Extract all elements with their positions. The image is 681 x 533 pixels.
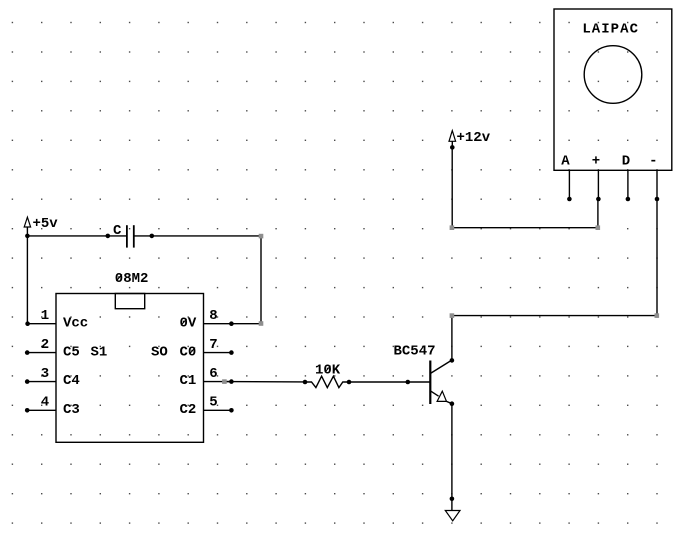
IC U1 pin 3 (C4): [25, 366, 56, 384]
module U2 pin label D: [622, 154, 630, 170]
svg-text:BC547: BC547: [394, 344, 436, 360]
svg-text:2: 2: [41, 337, 49, 353]
transistor Q1 base bar: [429, 361, 431, 405]
capacitor C value label: [113, 223, 122, 239]
svg-text:6: 6: [209, 366, 217, 382]
module U2 LAIPAC box: [554, 9, 672, 170]
IC U1 pin 8 (0V): [204, 308, 234, 326]
svg-text:7: 7: [209, 337, 217, 353]
svg-text:C5: C5: [63, 344, 80, 360]
svg-text:1: 1: [41, 308, 49, 324]
IC U1 pin 7 (C0): [204, 337, 234, 355]
IC U1 label C1: [180, 373, 197, 389]
power symbol +5v: [24, 217, 30, 238]
power label +5v: [33, 216, 59, 232]
svg-text:SO: SO: [151, 344, 168, 360]
IC U1 label C0: [180, 344, 197, 360]
module U2 pin label -: [649, 153, 657, 169]
svg-text:C3: C3: [63, 402, 80, 418]
module U2 circle (antenna): [584, 46, 642, 104]
svg-text:A: A: [561, 154, 570, 170]
resistor R1 value label 10K: [315, 363, 341, 379]
svg-text:5: 5: [209, 395, 217, 411]
wire IC pin 6 to resistor R1: [222, 379, 307, 384]
svg-text:+: +: [592, 154, 600, 170]
IC U1 label 08M2: [115, 271, 149, 287]
wire resistor R1 to Q1 base: [347, 380, 431, 385]
module U2 pin D stub: [626, 170, 631, 201]
power symbol +12v: [449, 131, 456, 150]
IC U1 pin 5 (C2): [204, 395, 234, 413]
wire +5v to IC pin 1 (Vcc): [25, 236, 30, 326]
IC U1 label C5: [63, 344, 80, 360]
module U2 label LAIPAC: [582, 22, 639, 38]
IC U1 label SO: [151, 344, 168, 360]
wire LAIPAC - pin to Q1 collector: [450, 199, 659, 360]
wire +5v rail left segment: [27, 234, 110, 239]
svg-text:+5v: +5v: [33, 216, 59, 232]
transistor Q1 emitter with arrow: [430, 391, 454, 406]
svg-text:LAIPAC: LAIPAC: [582, 22, 639, 38]
capacitor C: [108, 225, 152, 247]
IC U1 pin 6 (C1): [204, 366, 234, 384]
IC U1 label S1: [91, 344, 108, 360]
wire +12v to LAIPAC + pin: [450, 147, 600, 230]
svg-text:C2: C2: [180, 402, 197, 418]
power label +12v: [457, 130, 491, 146]
transistor Q1 label BC547: [394, 344, 436, 360]
IC U1 label 0V: [180, 316, 197, 332]
module U2 pin + stub: [596, 170, 601, 201]
IC U1 pin 4 (C3): [25, 395, 56, 413]
transistor Q1 collector: [430, 358, 454, 373]
svg-text:C: C: [113, 223, 122, 239]
IC U1 body (08M2): [56, 294, 204, 443]
svg-text:4: 4: [41, 395, 49, 411]
IC U1 label C2: [180, 402, 197, 418]
module U2 pin A stub: [567, 170, 572, 201]
IC U1 label C4: [63, 373, 80, 389]
module U2 pin label A: [561, 154, 570, 170]
svg-text:D: D: [622, 154, 630, 170]
ground symbol: [445, 511, 460, 521]
svg-text:+12v: +12v: [457, 130, 491, 146]
svg-text:08M2: 08M2: [115, 271, 149, 287]
module U2 pin - stub: [655, 170, 660, 201]
module U2 pin label +: [592, 154, 600, 170]
svg-text:C0: C0: [180, 344, 197, 360]
IC U1 label C3: [63, 402, 80, 418]
IC U1 label Vcc: [63, 316, 88, 332]
svg-text:-: -: [649, 153, 657, 169]
IC U1 pin 2 (C5): [25, 337, 56, 355]
IC U1 notch: [115, 294, 144, 309]
svg-text:10K: 10K: [315, 363, 341, 379]
svg-text:C4: C4: [63, 373, 80, 389]
svg-text:S1: S1: [91, 344, 108, 360]
wire capacitor to IC pin 8 (0V): [150, 234, 264, 326]
svg-text:Vcc: Vcc: [63, 316, 88, 332]
IC U1 pin 1 (Vcc): [27, 308, 56, 324]
resistor R1 (10K) zigzag: [305, 376, 349, 387]
wire Q1 emitter to ground: [450, 404, 455, 511]
svg-text:3: 3: [41, 366, 49, 382]
svg-text:C1: C1: [180, 373, 197, 389]
svg-text:8: 8: [209, 308, 217, 324]
